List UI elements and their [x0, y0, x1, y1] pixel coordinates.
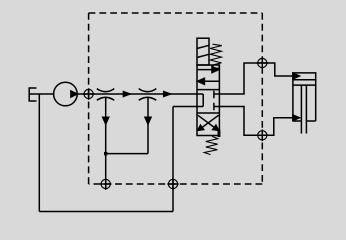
arrow right on main line 1 — [123, 92, 130, 97]
valve V1 position b crossed arrows — [198, 115, 219, 130]
pump P1 — [54, 82, 78, 106]
spring bottom — [204, 136, 218, 154]
arrow into cylinder top — [293, 73, 300, 79]
wire drain connector — [106, 153, 148, 155]
node X1 pump outlet test point — [83, 88, 95, 100]
arrow into cylinder bottom — [293, 115, 300, 121]
cylinder C1 — [293, 73, 316, 134]
tank T1 — [29, 88, 53, 101]
spring seat top — [213, 65, 219, 68]
junction dot — [104, 152, 107, 155]
node X4 top right test point — [257, 57, 269, 69]
spring top — [210, 44, 222, 65]
wire valve drain down — [172, 107, 174, 212]
arrow down on R2 drain — [145, 117, 151, 124]
wire valve B port to cylinder bottom — [219, 107, 293, 136]
valve V1 body — [197, 65, 219, 136]
node X3 bottom test point right — [167, 178, 179, 190]
spring seat bottom right — [218, 130, 221, 137]
node X2 bottom test point left — [100, 178, 112, 190]
wire tank branch down — [38, 94, 40, 212]
arrow right on main line 2 — [164, 92, 171, 97]
solenoid U1 proportional — [197, 38, 209, 65]
valve V1 position a arrows — [197, 67, 219, 85]
wire valve drain horizontal — [173, 106, 197, 108]
node X5 bottom right test point — [257, 130, 269, 142]
restrictor R1 — [97, 89, 115, 101]
restrictor R2 — [139, 89, 157, 101]
wire restrictor R1 drain — [105, 98, 107, 189]
valve V1 center position blocked ports — [197, 91, 219, 111]
wire main pressure line — [77, 93, 197, 95]
wire valve A port to cylinder top — [219, 63, 293, 94]
dashed enclosure boundary — [89, 13, 263, 184]
wire restrictor R2 drain — [147, 98, 149, 154]
wire bottom return to tank — [39, 211, 173, 213]
arrow down on R1 drain — [103, 117, 109, 124]
